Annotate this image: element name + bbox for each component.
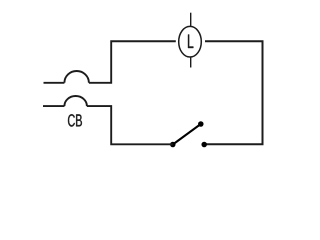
label CB xyxy=(68,114,82,126)
wire: switch pivot back to breaker pole 2 xyxy=(87,106,173,144)
lamp L: bottom lead tick xyxy=(190,57,192,68)
wire: breaker pole 1 up and across to lamp xyxy=(89,41,176,83)
switch S: contact node dot xyxy=(201,142,207,148)
wire: top supply lead into breaker pole 1 xyxy=(44,82,65,84)
lamp L: top lead tick xyxy=(190,13,192,27)
switch S: blade tip dot xyxy=(198,121,204,127)
label L xyxy=(188,35,193,49)
switch S: blade (open) xyxy=(173,124,201,145)
lamp L: bulb ellipse xyxy=(179,26,202,57)
switch S: pivot node dot xyxy=(170,142,176,148)
wire: bottom supply lead into breaker pole 2 xyxy=(43,105,64,107)
circuit breaker CB pole 2 (hump) xyxy=(64,96,87,106)
circuit breaker CB pole 1 (hump) xyxy=(64,71,89,83)
wire: lamp to right side and down to switch contact xyxy=(204,41,262,144)
